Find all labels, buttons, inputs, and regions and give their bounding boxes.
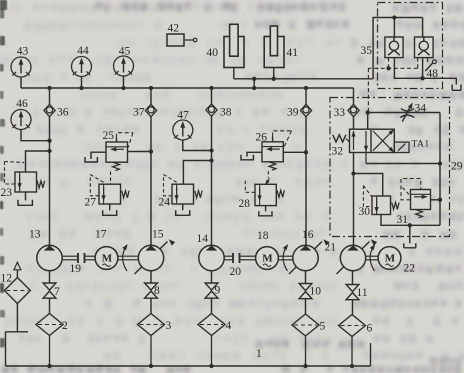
svg-text:33: 33 <box>334 107 346 119</box>
svg-text:35: 35 <box>361 45 373 57</box>
pressure switch 42 <box>167 34 184 46</box>
svg-text:TA1: TA1 <box>412 139 430 150</box>
svg-text:40: 40 <box>207 47 219 59</box>
filter 2 <box>36 314 63 336</box>
filter 12 <box>4 278 30 304</box>
wire: pump 13 to shutoff 7 <box>49 271 51 283</box>
wire: check 38 down to pump 14 <box>211 116 213 246</box>
svg-text:48: 48 <box>427 68 439 80</box>
valve 28 pilot (dashed) <box>245 180 255 192</box>
svg-text:18: 18 <box>257 230 269 242</box>
svg-text:21: 21 <box>325 242 337 254</box>
valve 31 pilot loop (dashed) <box>401 179 421 200</box>
shaft pump13-coupling <box>62 255 77 257</box>
svg-text:4: 4 <box>226 320 232 332</box>
svg-text:1: 1 <box>256 348 262 360</box>
coupling 19 <box>77 253 79 263</box>
svg-text:12: 12 <box>1 273 13 285</box>
throttle line wire <box>368 112 440 114</box>
valve 25 spring <box>113 162 120 170</box>
rotation arrow pump 16 <box>283 246 287 271</box>
valve 32 left position arrows <box>353 131 355 150</box>
svg-text:25: 25 <box>103 130 115 142</box>
pump 21 (variable) <box>337 242 370 275</box>
pilot check valve (right) of 35 <box>415 37 434 58</box>
svg-text:42: 42 <box>168 23 180 35</box>
wire: check 36 down to pump 13 <box>49 117 51 246</box>
svg-text:5: 5 <box>320 321 326 333</box>
svg-text:6: 6 <box>367 323 373 335</box>
filter 3 <box>138 314 165 336</box>
wire: check outlets to drain <box>394 58 456 85</box>
subsystem boundary 29 (dash-dot) <box>330 98 450 237</box>
wire: filter 2 to tank <box>49 336 51 367</box>
valve 27 drain cup <box>109 204 111 210</box>
svg-text:28: 28 <box>239 198 251 210</box>
shutoff valve 7 <box>43 283 56 290</box>
svg-text:13: 13 <box>29 229 41 241</box>
wire: 7 to filter 2 <box>49 298 51 313</box>
relief valve 26 <box>262 142 283 162</box>
junction dots on line A <box>252 77 256 81</box>
tank symbol at manifold drain <box>452 85 461 91</box>
svg-text:31: 31 <box>397 214 409 226</box>
reducing valve 23 <box>15 172 37 192</box>
reducing valve 24 <box>172 184 194 204</box>
rotation arrow pump 15 <box>123 246 127 271</box>
check valve 39 <box>305 88 307 104</box>
valve 23 drain cup <box>25 192 27 201</box>
wire: gauge pressure bus <box>21 87 354 89</box>
svg-text:7: 7 <box>54 286 60 298</box>
shutoff valve 11 <box>346 285 359 292</box>
junction dot feed of valve 30 <box>351 171 355 175</box>
wire: pump 21 to shutoff 11 <box>352 271 354 285</box>
valve 26 pilot loop (dashed) <box>272 137 274 142</box>
svg-text:3: 3 <box>166 320 172 332</box>
gauge 43 <box>11 57 31 77</box>
rotation arrow motor 22 <box>370 246 374 271</box>
check valve 37 <box>150 88 152 104</box>
wire: filter 5 to tank <box>305 336 307 366</box>
pump 15 (variable) <box>135 242 168 275</box>
solenoid valve 32 body <box>350 129 395 152</box>
svg-text:20: 20 <box>230 266 242 278</box>
wire: line A up-feed to block 35 <box>373 18 423 79</box>
wire: filter 12 to tank step <box>16 304 18 332</box>
cylinder 40 <box>224 37 244 68</box>
svg-text:26: 26 <box>256 132 268 144</box>
pilot drain 25 to 27 (dashed) <box>110 172 112 185</box>
pressure switch 48 <box>427 58 429 62</box>
wire: valve 30 to drain header <box>381 215 440 226</box>
svg-text:16: 16 <box>302 229 314 241</box>
pilot drain 26 to 28 (dashed) <box>267 171 269 178</box>
wire: check 37 down to pump 15 <box>150 117 152 246</box>
motor 22 <box>378 247 401 270</box>
valve 32 crossed position <box>373 131 392 151</box>
svg-text:34: 34 <box>415 103 427 115</box>
wire: filter 3 to tank <box>150 336 152 367</box>
relief valve 25 <box>106 142 128 162</box>
throttle valve 34 <box>401 109 414 111</box>
shaft motor17-pump15 <box>118 255 138 257</box>
valve 32 end box <box>394 142 409 152</box>
pump 14 <box>199 245 224 270</box>
svg-text:46: 46 <box>16 98 28 110</box>
gauge 46 <box>11 110 31 130</box>
pilot check valve (left) of 35 <box>385 37 403 58</box>
svg-text:43: 43 <box>17 46 29 58</box>
wire: pump 14 to shutoff 9 <box>211 271 213 283</box>
svg-text:37: 37 <box>133 107 145 119</box>
wire: filter 4 to tank <box>211 336 213 367</box>
pump 16 (variable) <box>289 242 322 275</box>
tank 1 return line <box>6 365 371 367</box>
shutoff valve 10 <box>299 284 312 291</box>
svg-text:38: 38 <box>220 107 232 119</box>
svg-text:24: 24 <box>159 197 171 209</box>
shutoff valve 9 <box>205 283 218 290</box>
valve 28 drain cup <box>265 206 267 212</box>
svg-text:44: 44 <box>77 45 89 57</box>
pump 13 <box>37 245 62 270</box>
suction arrow above filter 12 <box>14 262 21 270</box>
valve 27 pilot (dashed) <box>90 175 99 196</box>
svg-text:15: 15 <box>152 229 164 241</box>
shaft coupling-motor17 <box>86 255 96 257</box>
valve 24 pilot (dashed) <box>164 175 173 196</box>
junction dots on bus <box>47 86 51 90</box>
wire: cylinder line A <box>234 78 373 80</box>
svg-text:2: 2 <box>62 320 68 332</box>
filter 6 <box>339 315 366 337</box>
filter 4 <box>198 314 225 336</box>
wire: 9 to filter 4 <box>211 298 213 313</box>
svg-text:M: M <box>385 253 396 265</box>
svg-text:47: 47 <box>177 110 189 122</box>
valve 26 spring <box>269 162 276 170</box>
svg-text:M: M <box>102 253 113 265</box>
gauge 47 <box>173 120 193 140</box>
reducing valve 30 <box>372 196 391 215</box>
check valve 38 <box>211 88 213 104</box>
wire: valve 31 outlet <box>431 199 441 201</box>
filter 5 <box>292 314 319 336</box>
gauge 45 <box>114 56 134 76</box>
svg-text:19: 19 <box>70 263 82 275</box>
pilot line (dashed) of 35 <box>388 58 390 69</box>
svg-text:22: 22 <box>404 263 416 275</box>
wire: pump 15 to shutoff 8 <box>150 271 152 283</box>
shaft pump14-coupling <box>224 255 232 257</box>
check valve 33 <box>348 104 359 116</box>
wire: pump 16 to shutoff 10 <box>305 271 307 284</box>
wire: stub joining line A and bus <box>253 79 255 88</box>
wire: branch to reducing valve 24 <box>183 161 211 185</box>
motor 17 <box>95 247 118 270</box>
wire: bus corner down to check valve 33 <box>353 88 355 105</box>
valve 25 pilot loop (dashed) <box>116 138 118 142</box>
wire: valve 32 outlet to node 29 <box>366 163 440 165</box>
svg-text:23: 23 <box>1 187 13 199</box>
wire: pump 21 line branch to valve 30 <box>354 174 383 197</box>
solenoid W of valve 32 <box>333 135 346 142</box>
tank symbol below node 31 <box>409 225 411 243</box>
motor 18 <box>256 247 279 270</box>
svg-text:29: 29 <box>451 161 463 173</box>
cylinder 41 <box>264 37 284 68</box>
svg-text:30: 30 <box>359 206 371 218</box>
gauge 44 <box>72 57 92 77</box>
relief valve 31 <box>411 190 431 210</box>
svg-text:8: 8 <box>154 285 160 297</box>
svg-text:27: 27 <box>85 197 97 209</box>
reducing valve 28 <box>255 184 276 205</box>
valve 25 tank connection <box>91 152 106 159</box>
svg-text:32: 32 <box>332 146 344 158</box>
svg-text:39: 39 <box>287 107 299 119</box>
valve 30 pilot (dashed) <box>363 186 372 207</box>
shutoff valve 8 <box>145 283 158 290</box>
svg-text:14: 14 <box>197 233 209 245</box>
wire: valve 26 to pump 16 line <box>283 151 306 153</box>
svg-text:36: 36 <box>57 107 69 119</box>
wire: check 39 down to pump 16 <box>305 117 307 246</box>
valve 26 tank connection <box>247 152 262 156</box>
wire: 10 to filter 5 <box>305 299 307 314</box>
svg-text:17: 17 <box>95 229 107 241</box>
wire: right loop of box 29 <box>439 113 441 226</box>
wire: branch to reducing valve 23 <box>26 151 50 172</box>
wire: 11 to filter 6 <box>352 300 354 315</box>
manifold boundary 35 (dash-dot) <box>378 3 443 89</box>
shaft coupling-motor18 <box>241 255 256 257</box>
svg-text:10: 10 <box>310 286 322 298</box>
coupling 20 <box>232 253 234 263</box>
svg-text:M: M <box>262 253 273 265</box>
wire: check 33 to pump 21 <box>353 117 355 246</box>
wire: 8 to filter 3 <box>150 298 152 313</box>
valve 24 drain cup <box>182 204 184 210</box>
svg-text:9: 9 <box>215 285 221 297</box>
svg-text:11: 11 <box>357 287 368 299</box>
wire: filter 6 to tank <box>351 337 353 367</box>
shaft motor18-pump16 <box>278 255 292 257</box>
wire: valve 25 to pump 15 line <box>128 151 152 153</box>
svg-text:41: 41 <box>287 47 299 59</box>
svg-text:45: 45 <box>119 46 131 58</box>
check valve 36 <box>49 88 51 104</box>
reducing valve 27 <box>99 184 121 204</box>
valve 23 pilot (dashed) <box>5 162 16 185</box>
shaft pump21-motor22 <box>366 255 378 257</box>
wire: manifold top distribution <box>393 18 395 38</box>
